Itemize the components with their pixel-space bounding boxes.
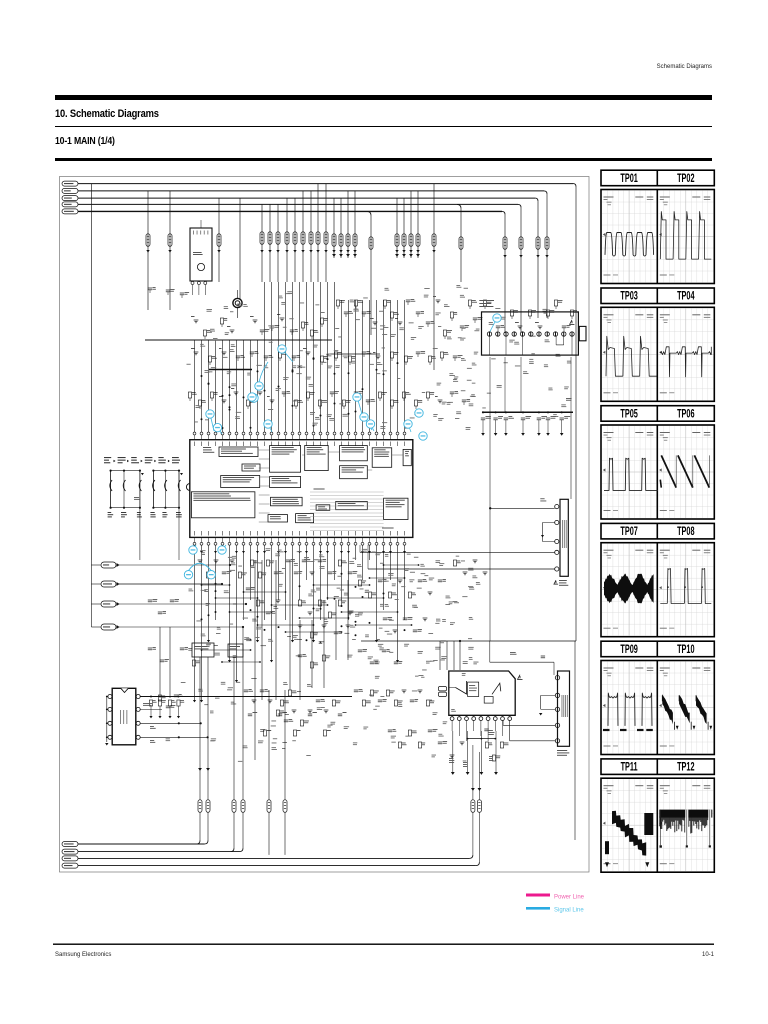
svg-text:TP12: TP12: [677, 761, 695, 774]
svg-text:TP07: TP07: [620, 525, 638, 538]
svg-text:TP09: TP09: [620, 643, 638, 656]
svg-text:Samsung Electronics: Samsung Electronics: [55, 952, 111, 958]
svg-text:Signal Line: Signal Line: [554, 908, 584, 914]
svg-text:TP10: TP10: [677, 643, 695, 656]
svg-text:TP01: TP01: [620, 172, 638, 185]
svg-text:TP05: TP05: [620, 408, 638, 421]
svg-text:TP08: TP08: [677, 525, 695, 538]
svg-text:10-1: 10-1: [702, 952, 715, 958]
svg-text:Power Line: Power Line: [554, 895, 585, 901]
svg-text:TP04: TP04: [677, 290, 695, 303]
svg-text:TP02: TP02: [677, 172, 695, 185]
svg-text:TP03: TP03: [620, 290, 638, 303]
svg-text:TP06: TP06: [677, 408, 695, 421]
svg-text:TP11: TP11: [621, 761, 638, 774]
